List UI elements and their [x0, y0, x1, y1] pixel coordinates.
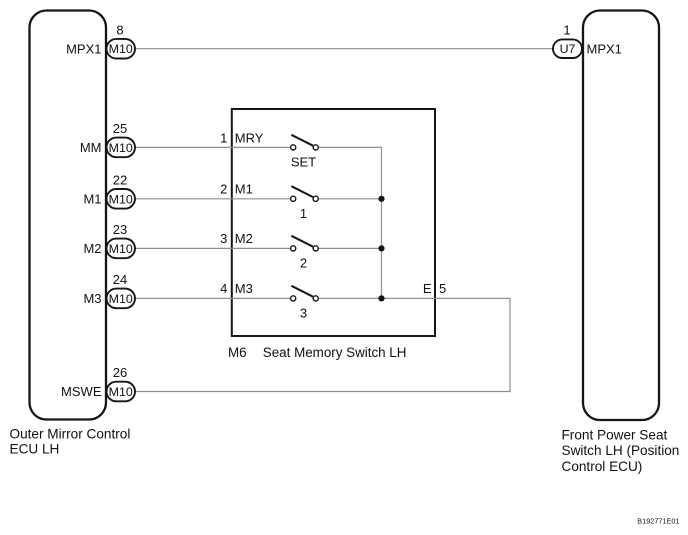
ECU U-left: Outer Mirror Control ECU LH body	[30, 11, 107, 420]
junction dot: bus / switch 3	[378, 295, 384, 301]
junction dot: bus / switch 2	[378, 245, 384, 251]
svg-text:ECU LH: ECU LH	[10, 442, 60, 457]
wire: M2 (M10-23 to switch 2)	[135, 247, 290, 249]
wire: switch 1 output to bus	[318, 198, 381, 200]
connector M10 pin 22 (M1)	[107, 173, 136, 209]
box pin E5	[423, 281, 446, 296]
pin name MPX1 (left)	[66, 41, 101, 56]
wire: switch 2 output to bus	[318, 247, 381, 249]
svg-text:M10: M10	[109, 42, 133, 56]
svg-text:Switch LH (Position: Switch LH (Position	[562, 443, 680, 458]
pin name M2	[83, 241, 101, 256]
switch 1 (pin 2 M1)	[291, 186, 319, 221]
svg-text:23: 23	[113, 222, 127, 237]
connector M10 pin 26 (MSWE)	[107, 365, 136, 401]
svg-text:Seat Memory Switch LH: Seat Memory Switch LH	[263, 345, 407, 360]
svg-text:4: 4	[220, 281, 227, 296]
svg-text:Control ECU): Control ECU)	[562, 459, 643, 474]
svg-text:MPX1: MPX1	[66, 41, 101, 56]
svg-text:M3: M3	[83, 291, 101, 306]
svg-text:M6: M6	[228, 345, 247, 360]
svg-text:1: 1	[220, 130, 227, 145]
drawing number B192771E01	[637, 517, 679, 526]
svg-text:5: 5	[439, 281, 446, 296]
svg-text:8: 8	[116, 22, 123, 37]
svg-text:M2: M2	[83, 241, 101, 256]
switch 2 (pin 3 M2)	[291, 236, 319, 271]
wire: bus from SET output down to switch 3 output	[318, 147, 381, 298]
connector M10 pin 8 (MPX1)	[107, 22, 136, 58]
svg-text:1: 1	[300, 206, 307, 221]
svg-text:2: 2	[300, 256, 307, 271]
svg-text:M10: M10	[109, 141, 133, 155]
switch 3 (pin 4 M3)	[291, 286, 319, 321]
svg-text:B192771E01: B192771E01	[637, 517, 679, 526]
wire: M3 (M10-24 to switch 3)	[135, 297, 290, 299]
svg-text:M10: M10	[109, 292, 133, 306]
svg-text:25: 25	[113, 121, 127, 136]
pin name M3	[83, 291, 101, 306]
connector U7 pin 1 (MPX1)	[553, 22, 582, 58]
svg-text:SET: SET	[291, 155, 316, 170]
svg-text:MM: MM	[80, 140, 102, 155]
label: Front Power Seat Switch LH (Position Control ECU)	[562, 428, 680, 474]
wire: MPX1 (M10-8 to U7-1)	[135, 48, 553, 50]
svg-text:26: 26	[113, 365, 127, 380]
box M6: Seat Memory Switch LH	[232, 109, 435, 336]
svg-text:E: E	[423, 281, 432, 296]
label: M6 Seat Memory Switch LH	[228, 345, 406, 360]
svg-text:Outer Mirror Control: Outer Mirror Control	[10, 426, 131, 441]
ECU U-right: Front Power Seat Switch LH (Position Control ECU) body	[583, 11, 659, 421]
wire: M1 (M10-22 to switch 1)	[135, 198, 290, 200]
junction dot: bus / switch 1	[378, 196, 384, 202]
pin name MPX1 (right)	[587, 41, 622, 56]
connector M10 pin 24 (M3)	[107, 272, 136, 308]
pin name M1	[83, 191, 101, 206]
svg-text:24: 24	[113, 272, 127, 287]
svg-text:2: 2	[220, 182, 227, 197]
svg-text:M10: M10	[109, 192, 133, 206]
box pin 2 / M1	[220, 182, 253, 197]
svg-text:22: 22	[113, 173, 127, 188]
svg-text:1: 1	[563, 22, 570, 37]
pin name MSWE	[61, 384, 102, 399]
svg-text:MPX1: MPX1	[587, 41, 622, 56]
svg-text:3: 3	[220, 231, 227, 246]
connector M10 pin 25 (MM)	[107, 121, 136, 157]
svg-text:MSWE: MSWE	[61, 384, 102, 399]
svg-text:Front Power Seat: Front Power Seat	[562, 428, 668, 443]
pin name MM	[80, 140, 102, 155]
svg-text:M3: M3	[235, 281, 253, 296]
label: Outer Mirror Control ECU LH	[10, 426, 131, 456]
svg-text:M10: M10	[109, 385, 133, 399]
connector M10 pin 23 (M2)	[107, 222, 136, 258]
svg-text:U7: U7	[560, 42, 576, 56]
box pin 1 / MRY	[220, 130, 264, 145]
svg-text:M2: M2	[235, 231, 253, 246]
svg-text:M1: M1	[235, 182, 253, 197]
svg-text:M10: M10	[109, 242, 133, 256]
box pin 4 / M3	[220, 281, 253, 296]
svg-text:M1: M1	[83, 191, 101, 206]
wire: MM (M10-25 to switch SET)	[135, 146, 290, 148]
svg-text:MRY: MRY	[235, 130, 264, 145]
switch SET (pin 1 MRY)	[291, 135, 319, 170]
wire: switch 3 output through pin E5 to MSWE (M10-26)	[134, 298, 511, 391]
svg-text:3: 3	[300, 306, 307, 321]
box pin 3 / M2	[220, 231, 253, 246]
